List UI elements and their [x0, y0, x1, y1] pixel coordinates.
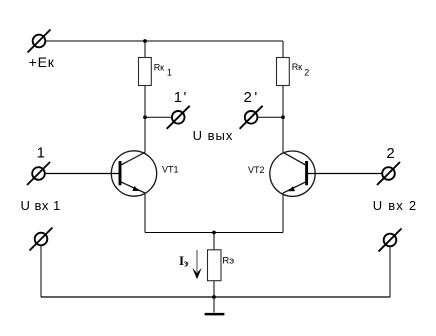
wire emitter bus — [145, 232, 283, 234]
svg-text:2: 2 — [304, 67, 309, 77]
wire left branch top drop — [144, 41, 146, 58]
ground — [205, 313, 225, 316]
svg-text:U вых: U вых — [193, 128, 234, 143]
svg-text:VT2: VT2 — [248, 165, 265, 175]
terminal input bottom-right — [379, 229, 402, 252]
terminal +Ek — [28, 30, 51, 53]
wire right input drop — [389, 246, 391, 297]
wire tap to terminal 1' — [145, 116, 172, 118]
svg-text:+Ек: +Ек — [29, 54, 55, 70]
wire Re bottom to bottom rail — [213, 281, 215, 298]
resistor Rk2 — [277, 58, 290, 86]
svg-text:э: э — [184, 258, 188, 269]
wire ground stem — [213, 297, 215, 313]
svg-text:2: 2 — [386, 145, 394, 162]
junction node 2' tap — [281, 115, 285, 119]
wire Rk2 bottom to VT2 collector — [282, 86, 284, 153]
svg-text:1': 1' — [174, 89, 188, 106]
junction node bottom rail — [212, 295, 216, 299]
resistor Rk1 — [139, 58, 152, 86]
wire Rk1 bottom to VT1 collector — [144, 86, 146, 153]
wire VT2 emitter down — [282, 193, 284, 233]
terminal 2 — [377, 162, 400, 185]
transistor VT2 — [270, 151, 315, 196]
svg-text:Rк: Rк — [154, 62, 164, 72]
wire VT1 emitter down — [144, 193, 146, 233]
junction node top rail / Rk1 — [143, 39, 147, 43]
svg-text:Rк: Rк — [292, 62, 302, 72]
svg-text:VT1: VT1 — [162, 165, 179, 175]
wire bottom rail — [41, 296, 390, 298]
wire emitter bus to Re top — [213, 233, 215, 251]
wire tap to terminal 2' — [257, 116, 283, 118]
svg-text:1: 1 — [167, 67, 172, 77]
transistor VT1 — [111, 151, 156, 196]
terminal input bottom-left — [30, 228, 53, 251]
resistor Re — [208, 250, 222, 281]
svg-text:U вх 1: U вх 1 — [21, 198, 61, 213]
wire base VT1 from terminal 1 — [45, 173, 120, 175]
wire base VT2 to terminal 2 — [307, 173, 383, 175]
wire left input drop — [40, 245, 42, 297]
svg-text:2': 2' — [244, 89, 260, 106]
terminal 1' — [167, 106, 190, 129]
current arrow Ie — [192, 250, 202, 279]
wire top rail from +Ek to right branch — [45, 40, 283, 42]
svg-text:U вх 2: U вх 2 — [373, 198, 417, 213]
wire right branch top drop — [282, 41, 284, 58]
terminal 2' — [240, 106, 263, 129]
svg-text:Rэ: Rэ — [222, 255, 234, 266]
junction node emitter bus — [212, 231, 216, 235]
svg-text:1: 1 — [37, 145, 45, 162]
junction node 1' tap — [143, 115, 147, 119]
terminal 1 — [27, 162, 50, 185]
